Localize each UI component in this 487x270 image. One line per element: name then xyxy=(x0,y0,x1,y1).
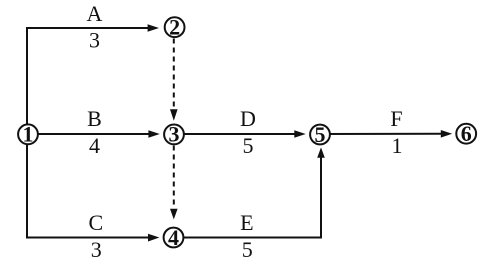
wire edge F: node 5 to node 6 xyxy=(320,130,452,138)
node 2 xyxy=(165,15,185,40)
wire edge D: node 3 to node 5 xyxy=(174,130,306,138)
node 4 xyxy=(164,225,184,250)
label duration 1 (F) xyxy=(392,133,403,158)
label duration 4 (B) xyxy=(89,133,100,158)
svg-text:5: 5 xyxy=(242,237,253,262)
svg-text:A: A xyxy=(87,1,103,26)
wire: left vertical spine through node 1 xyxy=(26,27,28,239)
label activity F xyxy=(390,106,402,131)
svg-text:6: 6 xyxy=(461,121,472,146)
dashed dummy arrow: node 2 to node 3 xyxy=(170,39,178,121)
label duration 3 (C) xyxy=(91,237,102,262)
wire edge C: bottom horizontal from corner to node 4 xyxy=(26,234,159,242)
label activity E xyxy=(240,210,253,235)
svg-text:D: D xyxy=(240,106,256,131)
node 6 xyxy=(456,121,476,146)
svg-text:3: 3 xyxy=(89,28,100,53)
node 1 xyxy=(18,122,38,147)
label activity D xyxy=(240,106,256,131)
svg-text:E: E xyxy=(240,210,253,235)
label activity C xyxy=(88,210,103,235)
svg-text:C: C xyxy=(88,210,103,235)
wire edge A: top horizontal from corner to node 2 xyxy=(26,24,159,32)
label activity B xyxy=(87,106,102,131)
label activity A xyxy=(87,1,103,26)
svg-text:5: 5 xyxy=(243,133,254,158)
svg-text:4: 4 xyxy=(89,133,100,158)
label duration 3 (A) xyxy=(89,28,100,53)
svg-text:5: 5 xyxy=(315,122,326,147)
svg-text:B: B xyxy=(87,106,102,131)
svg-text:F: F xyxy=(390,106,402,131)
wire edge B: node 1 to node 3 xyxy=(28,130,160,138)
label duration 5 (E) xyxy=(242,237,253,262)
svg-text:3: 3 xyxy=(169,122,180,147)
svg-text:3: 3 xyxy=(91,237,102,262)
svg-text:4: 4 xyxy=(168,225,179,250)
dashed dummy arrow: node 3 to node 4 xyxy=(170,146,178,220)
svg-text:1: 1 xyxy=(392,133,403,158)
svg-text:2: 2 xyxy=(169,15,180,40)
label duration 5 (D) xyxy=(243,133,254,158)
node 5 xyxy=(310,122,330,147)
wire edge E: node 4 right then up into node 5 xyxy=(174,147,325,237)
svg-text:1: 1 xyxy=(23,122,34,147)
node 3 xyxy=(164,122,184,147)
